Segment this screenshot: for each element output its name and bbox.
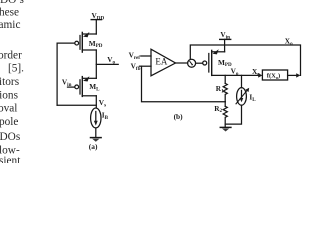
RF2 label (214, 104, 222, 114)
MPD (b) gate bubble (203, 61, 207, 65)
feedback wire horizontal to Vs node (57, 104, 96, 106)
ground (a) (91, 137, 102, 139)
feedback wire MPD gate to Vs (vertical) (57, 43, 75, 105)
MPD (a) drain lead (82, 49, 96, 51)
ML channel bar (81, 77, 83, 97)
svg-text:order: order (0, 49, 22, 61)
svg-text:DO’s: DO’s (0, 0, 24, 6)
MPD (b) drain lead + Vo wire (212, 74, 261, 76)
load current branch wire (241, 75, 243, 87)
node Vo wire (a) (96, 63, 118, 65)
svg-text:DOs: DOs (0, 131, 20, 143)
top rail Xo feedback wire (190, 45, 300, 75)
op-amp EA (151, 49, 176, 76)
svg-text:(b): (b) (174, 112, 184, 121)
Vfb input wire (140, 65, 152, 67)
svg-text:oval: oval (0, 103, 17, 115)
svg-text:hese: hese (0, 6, 19, 18)
arrow inside circle (190, 61, 192, 64)
arrow into f(Xo) box (258, 73, 262, 77)
load current source IL ellipse (237, 88, 247, 106)
caption (a) (89, 142, 98, 151)
resistor RF2 stub (224, 102, 226, 107)
MPD (a) source arrow (83, 32, 89, 37)
transistor MPD (b) : source lead (212, 51, 224, 53)
resistor RF1 stub (224, 75, 226, 83)
ML label (89, 82, 100, 92)
svg-text:(a): (a) (89, 142, 98, 151)
svg-text:itors: itors (0, 76, 19, 88)
transistor ML : source lead (83, 77, 96, 79)
ML gate bubble (75, 85, 79, 89)
IB arrow (95, 112, 97, 122)
left paper text column (0, 0, 24, 167)
Vfb label (131, 61, 141, 72)
Vin bar (220, 38, 231, 40)
block f(Xo) (262, 70, 287, 80)
wire IB to ground (95, 128, 97, 137)
svg-text:pole: pole (0, 116, 18, 128)
MPD (b) channel bar (211, 50, 213, 75)
svg-text:tions: tions (0, 89, 18, 101)
ML drain lead (82, 95, 96, 97)
resistor RF1 (223, 83, 227, 101)
f(Xo) output wire (288, 74, 298, 76)
Vin stub wire (224, 39, 226, 51)
MPD (b) label (218, 58, 232, 68)
current source IB ellipse (91, 108, 101, 128)
MPD (b) gate bar (208, 54, 210, 73)
VB gate wire (68, 86, 75, 88)
MPD (a) gate bubble (75, 41, 79, 45)
MPD (a) gate bar (79, 36, 81, 50)
IL bottom wire to ground node (225, 105, 241, 124)
Vref label (129, 51, 141, 62)
VDD label (92, 11, 105, 22)
arrow from box to Xo wire (296, 73, 300, 77)
svg-text:f(Xo): f(Xo) (267, 73, 280, 80)
IL label (249, 92, 256, 103)
feedback tap wire to Vfb (142, 66, 226, 102)
IL variable diagonal arrow (236, 90, 247, 104)
Vref input wire (141, 55, 151, 57)
ground (b) (220, 126, 231, 128)
wire drain to ML source (95, 50, 97, 78)
IB label (102, 110, 109, 121)
ML source arrow (83, 76, 89, 81)
MPD (b) source arrow (213, 49, 219, 54)
resistor RF2 (223, 106, 227, 127)
wire ML drain down to Vs node (95, 96, 97, 108)
Vo label (a) (107, 55, 115, 65)
VB label (62, 78, 72, 89)
caption (b) (174, 112, 184, 121)
EA output wire (176, 62, 188, 64)
RF1 label (216, 84, 224, 94)
VDD rail bar (91, 19, 101, 21)
Xo label top right (285, 37, 293, 48)
MPD (a) label (89, 39, 103, 49)
Xo label mid wire (252, 67, 260, 78)
ML gate bar (79, 80, 81, 94)
transistor MPD (a) : source lead (83, 33, 96, 35)
svg-text:sient: sient (0, 155, 21, 163)
MPD (a) channel bar (81, 32, 83, 52)
node XG summing circle (188, 59, 196, 67)
svg-text:[5].: [5]. (8, 63, 24, 75)
wire circle to gate bubble (196, 62, 203, 64)
svg-text:amic: amic (0, 19, 20, 31)
Vs label (99, 98, 106, 109)
Vo label (b) (231, 67, 239, 78)
IL arrow inside (241, 90, 243, 98)
VDD stub wire (95, 20, 97, 34)
Vin label (220, 30, 230, 41)
svg-text:EA: EA (155, 57, 167, 67)
